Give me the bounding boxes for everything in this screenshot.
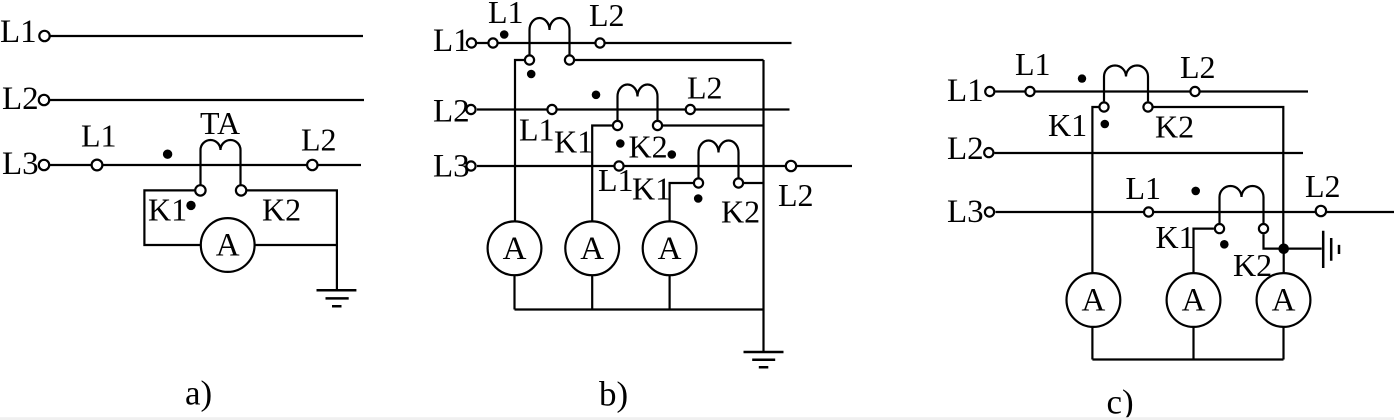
svg-text:K1: K1	[1156, 219, 1195, 255]
terminal K2 of TA3 (b)	[734, 178, 743, 187]
wire line L1 (b)	[477, 42, 792, 44]
wire TA3 lead K1 (c)	[1218, 197, 1220, 223]
svg-text:A: A	[1081, 283, 1105, 319]
ground (a)	[317, 290, 357, 306]
wire TA lead K2 (a)	[239, 150, 241, 185]
node L2 source terminal (b)	[466, 105, 475, 114]
svg-text:L1: L1	[1126, 170, 1162, 206]
node L1 source terminal (c)	[985, 87, 994, 96]
wire line L3 (c)	[996, 211, 1394, 213]
transformer TA1 winding (b)	[530, 18, 570, 30]
terminal K2 of TA3 (c)	[1259, 224, 1268, 233]
wire line L2 (a)	[50, 99, 364, 101]
svg-text:K2: K2	[721, 194, 760, 230]
svg-text:L3: L3	[2, 146, 39, 182]
svg-text:c): c)	[1107, 383, 1134, 420]
svg-text:a): a)	[185, 374, 212, 413]
wire TA2 lead K2 (b)	[656, 97, 658, 121]
footer strip	[0, 417, 1394, 420]
terminal L2 of TA3 primary (b)	[786, 161, 796, 171]
wire K1 TA1 to ammeter A1 (c)	[1092, 107, 1098, 273]
svg-text:L1: L1	[433, 23, 470, 59]
wire K2 TA3 to return (b)	[744, 182, 764, 184]
transformer TA3 winding (c)	[1220, 186, 1264, 197]
wire TA1 lead K1 (c)	[1103, 77, 1105, 102]
terminal K1 of TA3 (c)	[1215, 224, 1224, 233]
wire bottom bus (c)	[1092, 358, 1283, 360]
wire K1 TA2 to ammeter A2 (b)	[592, 126, 612, 222]
wire line L2 (b)	[477, 108, 790, 110]
svg-text:L2: L2	[1180, 49, 1216, 85]
svg-text:K2: K2	[262, 192, 301, 228]
svg-text:K1: K1	[148, 192, 187, 228]
svg-text:K1: K1	[554, 124, 593, 160]
wire TA3 lead K1 (b)	[697, 153, 699, 178]
wire A2 to bus (c)	[1192, 327, 1194, 360]
svg-text:A: A	[503, 231, 527, 267]
wire TA2 lead K1 (b)	[616, 97, 618, 121]
svg-text:K2: K2	[629, 129, 668, 165]
terminal L2 of TA3 primary (c)	[1316, 206, 1326, 216]
node L1 source terminal (b)	[467, 38, 476, 47]
terminal L1 of TA1 primary (c)	[1025, 87, 1034, 96]
terminal K2 (a)	[236, 185, 246, 195]
svg-text:A: A	[1272, 283, 1296, 319]
terminal L1 of TA primary (a)	[92, 160, 103, 171]
wire K1 TA1 to ammeter A1 (b)	[515, 60, 524, 222]
ground (c)	[1323, 231, 1339, 268]
wire A1 to bus (b)	[513, 275, 515, 309]
svg-text:A: A	[580, 231, 604, 267]
wire TA3 lead K2 (c)	[1262, 197, 1264, 223]
svg-text:L1: L1	[81, 118, 117, 154]
polarity dot primary TA3 (b)	[668, 150, 677, 159]
terminal K1 of TA2 (b)	[613, 121, 622, 130]
terminal L1 of TA2 primary (b)	[547, 105, 556, 114]
terminal L1 of TA1 primary (b)	[488, 38, 497, 47]
polarity dot secondary TA1 (c)	[1101, 120, 1110, 129]
svg-text:L1: L1	[0, 14, 37, 50]
svg-text:L2: L2	[687, 70, 723, 106]
terminal L1 of TA3 primary (c)	[1144, 207, 1153, 216]
svg-text:L2: L2	[433, 94, 470, 130]
node L2 source terminal (c)	[984, 148, 993, 157]
terminal K2 of TA1 (b)	[565, 55, 574, 64]
wire A3 to bus (c)	[1282, 327, 1284, 360]
wire junction to ammeter A3 (c)	[1283, 249, 1285, 274]
transformer TA3 winding (b)	[699, 141, 739, 153]
wire K2 TA1 to return (b)	[575, 59, 764, 61]
transformer TA winding (a)	[201, 140, 241, 150]
polarity dot primary TA1 (c)	[1078, 74, 1086, 82]
terminal L2 of TA primary (a)	[307, 160, 317, 170]
transformer TA1 winding (c)	[1104, 66, 1148, 77]
wire TA3 lead K2 (b)	[737, 153, 739, 178]
polarity dot primary TA (a)	[163, 150, 172, 159]
terminal L2 of TA1 primary (b)	[595, 38, 604, 47]
terminal K1 of TA1 (b)	[525, 55, 534, 64]
wire ammeter to node (a)	[255, 244, 337, 246]
wire line L3 (b)	[477, 165, 852, 167]
wire K2 TA3 to junction (c)	[1264, 234, 1284, 248]
node L3 source terminal (b)	[466, 161, 475, 170]
wire K1 TA3 to ammeter A3 (b)	[670, 183, 694, 222]
polarity dot secondary K1 (a)	[186, 201, 195, 210]
terminal K1 of TA1 (c)	[1099, 102, 1108, 111]
svg-text:K1: K1	[1048, 107, 1087, 143]
wire TA1 lead K2 (c)	[1147, 77, 1149, 102]
svg-text:L2: L2	[947, 131, 984, 167]
terminal K1 of TA3 (b)	[694, 178, 703, 187]
terminal L2 of TA2 primary (b)	[686, 105, 695, 114]
wire TA1 lead K2 (b)	[568, 30, 570, 55]
terminal K2 of TA2 (b)	[653, 121, 662, 130]
ammeter A (a)	[201, 218, 255, 272]
terminal L1 of TA3 primary (b)	[614, 161, 623, 170]
wire A2 to bus (b)	[591, 275, 593, 309]
wire line L1 (a)	[50, 35, 363, 37]
node L3 source terminal (a)	[39, 160, 49, 170]
svg-text:L2: L2	[1305, 168, 1341, 204]
polarity dot primary TA2 (b)	[592, 91, 601, 100]
svg-text:A: A	[658, 231, 682, 267]
terminal K1 (a)	[195, 185, 205, 195]
svg-text:K2: K2	[1233, 247, 1272, 283]
wire bottom bus (b)	[515, 308, 764, 310]
svg-text:A: A	[216, 228, 240, 264]
svg-text:A: A	[1182, 283, 1206, 319]
wire line L1 (c)	[996, 90, 1309, 92]
svg-text:L1: L1	[519, 112, 555, 148]
svg-text:b): b)	[599, 375, 628, 414]
transformer TA2 winding (b)	[618, 85, 658, 97]
svg-text:L2: L2	[301, 122, 337, 158]
ammeter A2 (b)	[565, 221, 619, 275]
ground (b)	[744, 352, 784, 367]
wire line L2 (c)	[995, 152, 1304, 154]
svg-text:L1: L1	[1015, 46, 1051, 82]
wire TA lead K1 (a)	[199, 150, 201, 185]
wire TA1 lead K1 (b)	[528, 30, 530, 55]
terminal L2 of TA1 primary (c)	[1190, 87, 1199, 96]
ammeter A1 (c)	[1067, 273, 1121, 327]
svg-text:TA: TA	[200, 105, 240, 141]
wire return to ground (b)	[762, 60, 764, 352]
svg-text:K1: K1	[632, 171, 671, 207]
ammeter A3 (b)	[643, 221, 697, 275]
svg-text:L1: L1	[488, 0, 524, 30]
wire A1 to bus (c)	[1091, 327, 1093, 360]
ammeter A2 (c)	[1167, 273, 1221, 327]
wire K2 to ground (a)	[247, 190, 337, 289]
ammeter A1 (b)	[488, 221, 542, 275]
svg-text:L2: L2	[589, 0, 625, 33]
wire K1 TA3 to ammeter A2 (c)	[1194, 229, 1214, 274]
node L2 source terminal (a)	[39, 95, 49, 105]
node L3 source terminal (c)	[985, 207, 994, 216]
wire line L3 (a)	[50, 164, 361, 166]
junction node (c)	[1278, 244, 1289, 255]
svg-text:L2: L2	[778, 177, 814, 213]
ammeter A3 (c)	[1257, 273, 1311, 327]
wire K2 TA1 to junction (c)	[1154, 107, 1284, 249]
polarity dot secondary TA2 (b)	[616, 139, 625, 148]
wire K1 to ammeter (a)	[144, 190, 201, 245]
polarity dot secondary TA1 (b)	[527, 70, 536, 79]
svg-text:L3: L3	[433, 149, 470, 185]
polarity dot primary TA3 (c)	[1191, 187, 1200, 196]
svg-text:L2: L2	[2, 81, 39, 117]
polarity dot secondary TA3 (c)	[1220, 240, 1229, 249]
wire K2 TA2 to return (b)	[663, 124, 764, 126]
node L1 source terminal (a)	[39, 31, 49, 41]
terminal K2 of TA1 (c)	[1143, 102, 1152, 111]
wire A3 to bus (b)	[668, 275, 670, 309]
polarity dot secondary TA3 (b)	[694, 194, 703, 203]
svg-text:K2: K2	[1155, 109, 1194, 145]
polarity dot primary TA1 (b)	[500, 30, 509, 39]
wire junction to ground (c)	[1287, 248, 1322, 250]
svg-text:L3: L3	[947, 194, 984, 230]
svg-text:L1: L1	[947, 73, 984, 109]
svg-text:L1: L1	[598, 162, 634, 198]
